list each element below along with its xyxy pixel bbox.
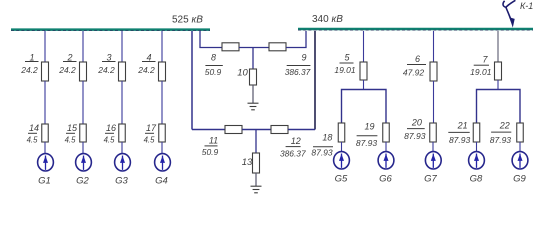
reactor 19 — [383, 123, 390, 142]
wire reactor 19 to G6 — [385, 142, 387, 152]
wire reactor 21 to G8 — [476, 142, 478, 152]
label 8/50.9 — [205, 52, 223, 77]
svg-text:5: 5 — [344, 52, 350, 62]
svg-text:G5: G5 — [335, 174, 348, 185]
svg-text:21: 21 — [457, 121, 468, 131]
svg-text:К-1: К-1 — [520, 1, 533, 11]
reactor 3 — [119, 62, 126, 81]
wire reactor 13 to ground — [255, 173, 257, 186]
svg-text:386.37: 386.37 — [280, 149, 306, 159]
reactor 18 — [338, 123, 345, 142]
label 18/87.93 — [311, 132, 333, 157]
svg-text:8: 8 — [211, 52, 216, 62]
wire reactor 11 to node 13 — [242, 129, 271, 131]
reactor 5 — [360, 62, 367, 80]
wire bus340 to reactor 7 — [497, 31, 499, 63]
wire reactor 6 to reactor 20 — [433, 81, 435, 123]
svg-text:50.9: 50.9 — [202, 147, 219, 157]
label 11/50.9 — [202, 135, 219, 157]
reactor 21 — [473, 123, 480, 142]
wire reactor 5 to tee — [363, 80, 365, 90]
svg-text:18: 18 — [322, 132, 332, 142]
svg-text:87.93: 87.93 — [356, 138, 378, 148]
wire reactor 3 to reactor 16 — [121, 81, 123, 124]
svg-text:87.93: 87.93 — [404, 131, 426, 141]
wire reactor 4 to reactor 17 — [161, 81, 163, 124]
reactor 20 — [430, 123, 437, 142]
label 15/4.5 — [65, 123, 78, 145]
wire riser 525 bus to lower tie — [191, 31, 193, 130]
generator G3 — [115, 154, 131, 171]
svg-text:7: 7 — [482, 55, 488, 65]
svg-text:20: 20 — [411, 117, 422, 127]
reactor 15 — [80, 124, 87, 142]
wire bus525 to reactor 2 — [82, 31, 84, 63]
wire reactor 15 to generator G2 — [82, 142, 84, 154]
svg-text:6: 6 — [415, 54, 420, 64]
svg-text:22: 22 — [499, 121, 510, 131]
svg-text:19: 19 — [364, 121, 374, 131]
svg-text:340 кВ: 340 кВ — [312, 14, 343, 25]
svg-text:19.01: 19.01 — [334, 65, 356, 75]
label 6/47.92 — [403, 54, 426, 78]
reactor 11 — [225, 126, 242, 134]
wire reactor 8 to node 10 — [239, 47, 269, 49]
svg-text:50.9: 50.9 — [205, 67, 222, 77]
svg-text:4.5: 4.5 — [65, 136, 77, 145]
svg-text:24.2: 24.2 — [20, 65, 38, 75]
label 2/24.2 — [58, 52, 76, 75]
svg-text:1: 1 — [29, 52, 34, 62]
svg-text:12: 12 — [291, 136, 301, 146]
wire reactor 10 to ground — [252, 85, 254, 103]
reactor 10 — [250, 69, 257, 85]
reactor 17 — [159, 124, 166, 142]
wire 525 bus to upper tie corner — [200, 31, 222, 48]
label 9/386.37 — [285, 53, 311, 77]
reactor 12 — [271, 126, 288, 134]
svg-text:G1: G1 — [38, 176, 51, 187]
svg-text:16: 16 — [106, 123, 116, 133]
label 14/4.5 — [27, 123, 39, 145]
reactor 8 — [222, 43, 239, 51]
wire bus340 to reactor 6 — [433, 31, 435, 63]
svg-text:24.2: 24.2 — [137, 65, 155, 75]
fault marker K-1 arrow — [503, 0, 515, 27]
svg-text:G3: G3 — [115, 176, 128, 187]
reactor 16 — [119, 124, 126, 142]
label 4/24.2 — [137, 52, 155, 75]
svg-text:87.93: 87.93 — [311, 148, 333, 158]
ground lower tie — [251, 186, 262, 193]
label 1/24.2 — [20, 52, 38, 75]
svg-text:4.5: 4.5 — [104, 136, 116, 145]
wire reactor 2 to reactor 15 — [82, 81, 84, 124]
svg-text:87.93: 87.93 — [490, 135, 512, 145]
svg-text:G8: G8 — [470, 174, 483, 185]
wire riser 340 bus to lower tie — [314, 31, 316, 130]
svg-text:9: 9 — [301, 53, 306, 63]
svg-text:4.5: 4.5 — [27, 136, 39, 145]
wire node to reactor 10 — [252, 48, 254, 70]
wire bus525 to reactor 4 — [161, 31, 163, 63]
reactor 22 — [517, 123, 524, 142]
label 22/87.93 — [490, 121, 512, 145]
generator G2 — [76, 154, 92, 171]
wire reactor 1 to reactor 14 — [44, 81, 46, 124]
label 5/19.01 — [334, 52, 356, 74]
wire reactor 14 to generator G1 — [44, 142, 46, 154]
wire reactor 20 to G7 — [432, 142, 434, 152]
label 7/19.01 — [470, 55, 492, 78]
reactor 9 — [269, 43, 286, 51]
label 19/87.93 — [356, 121, 378, 148]
wire reactor 12 to riser — [288, 129, 315, 131]
wire bus525 to reactor 1 — [44, 31, 46, 63]
svg-text:3: 3 — [106, 52, 111, 62]
svg-text:G2: G2 — [76, 176, 89, 187]
svg-text:2: 2 — [66, 52, 72, 62]
svg-text:525 кВ: 525 кВ — [172, 15, 203, 26]
wire reactor 9 to 340 bus corner — [286, 31, 306, 48]
label 17/4.5 — [144, 123, 157, 145]
svg-text:11: 11 — [209, 135, 218, 145]
wire tee to reactors 21 and 22 — [477, 90, 521, 124]
svg-text:G7: G7 — [424, 174, 437, 185]
reactor 13 — [253, 153, 260, 173]
svg-text:87.93: 87.93 — [449, 135, 471, 145]
reactor 4 — [159, 62, 166, 81]
reactor 1 — [42, 62, 49, 81]
label 20/87.93 — [404, 117, 426, 141]
svg-text:13: 13 — [242, 157, 253, 168]
label 3/24.2 — [97, 52, 115, 75]
label 21/87.93 — [448, 121, 470, 145]
wire reactor 18 to G5 — [341, 142, 343, 152]
wire reactor 17 to generator G4 — [161, 142, 163, 154]
wire bus525 to reactor 3 — [121, 31, 123, 63]
svg-text:24.2: 24.2 — [58, 65, 76, 75]
reactor 6 — [430, 62, 437, 81]
svg-text:10: 10 — [237, 68, 248, 79]
generator G7 — [425, 152, 441, 169]
wire reactor 7 to tee — [497, 80, 499, 90]
svg-text:G9: G9 — [513, 174, 526, 185]
label 12/386.37 — [280, 136, 306, 158]
svg-text:4: 4 — [146, 52, 151, 62]
ground upper tie — [248, 103, 259, 110]
wire reactor 22 to G9 — [519, 142, 521, 152]
svg-text:24.2: 24.2 — [97, 65, 115, 75]
reactor 7 — [495, 62, 502, 80]
svg-text:G6: G6 — [379, 174, 392, 185]
generator G9 — [512, 152, 528, 169]
generator G4 — [155, 154, 171, 171]
generator G8 — [469, 152, 485, 169]
wire lower tie left segment — [192, 129, 225, 131]
wire node to reactor 13 — [255, 130, 257, 154]
svg-text:17: 17 — [146, 123, 157, 133]
label 16/4.5 — [104, 123, 116, 145]
svg-text:19.01: 19.01 — [470, 67, 492, 77]
generator G6 — [378, 152, 394, 169]
bus 525 kV — [11, 30, 210, 31]
svg-text:15: 15 — [67, 123, 78, 133]
svg-text:14: 14 — [29, 123, 39, 133]
wire tee to reactors 18 and 19 — [342, 90, 387, 124]
svg-text:G4: G4 — [155, 176, 168, 187]
generator G5 — [334, 152, 350, 169]
svg-text:4.5: 4.5 — [144, 136, 156, 145]
reactor 14 — [42, 124, 49, 142]
wire bus340 to reactor 5 — [363, 31, 365, 63]
svg-text:386.37: 386.37 — [285, 67, 311, 77]
wire reactor 16 to generator G3 — [121, 142, 123, 154]
svg-text:47.92: 47.92 — [403, 67, 425, 77]
bus 340 kV — [298, 29, 533, 30]
generator G1 — [38, 154, 54, 171]
reactor 2 — [80, 62, 87, 81]
